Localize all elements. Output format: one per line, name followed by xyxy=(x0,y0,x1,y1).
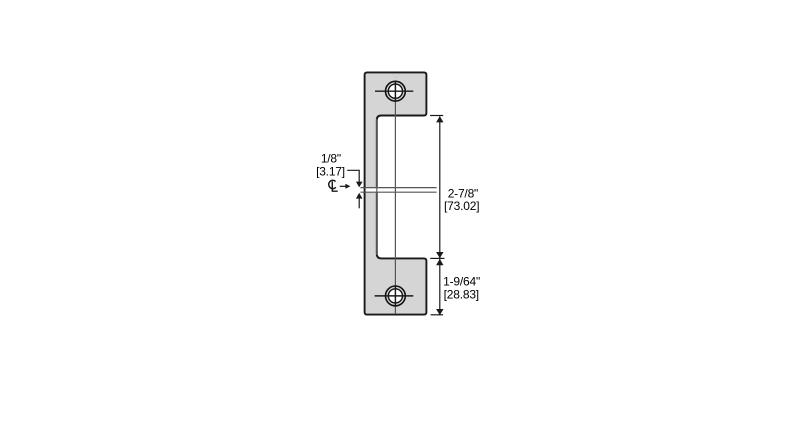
strike gap white band xyxy=(360,188,437,192)
arrowhead up (top of 1-9/64) xyxy=(436,259,443,265)
bottom hole crosshair xyxy=(375,285,414,307)
dim line 2-7/8 xyxy=(439,116,441,258)
arrowhead down (bottom of 1-9/64) xyxy=(436,309,443,315)
extension tick at plate bottom xyxy=(431,314,443,316)
faceplate body xyxy=(365,72,427,314)
stem of lower arrow xyxy=(358,198,360,208)
arrowhead up (top of 2-7/8) xyxy=(436,116,443,122)
arrowhead down (bottom of 2-7/8) xyxy=(436,252,443,258)
arrow to gap xyxy=(340,185,346,187)
extension tick at notch bottom xyxy=(430,257,444,259)
strike gap line lower xyxy=(360,191,436,193)
arrowhead down (1/8 gap, upper) xyxy=(356,182,363,188)
top edge V-notch mark xyxy=(392,74,399,78)
top hole crosshair xyxy=(375,81,413,102)
svg-text:[28.83]: [28.83] xyxy=(444,287,479,301)
leader from [3.17] xyxy=(347,170,359,183)
left edge over band xyxy=(364,186,366,194)
bottom hole xyxy=(386,286,406,306)
svg-text:1/8": 1/8" xyxy=(321,151,341,165)
top hole xyxy=(386,81,406,101)
centerline symbol CL xyxy=(329,180,338,191)
dimension elements xyxy=(430,116,444,316)
dim line 1-9/64 xyxy=(439,259,441,315)
svg-text:[3.17]: [3.17] xyxy=(316,165,345,179)
arrowhead up (1/8 gap, lower) xyxy=(356,193,363,199)
extension tick at notch top xyxy=(430,115,443,117)
notch vertical edge (gray) xyxy=(376,119,378,255)
strike gap line upper xyxy=(360,187,436,189)
hole centerline (vertical) xyxy=(394,81,396,314)
notch edge over band xyxy=(376,186,378,194)
svg-text:[73.02]: [73.02] xyxy=(444,199,479,213)
